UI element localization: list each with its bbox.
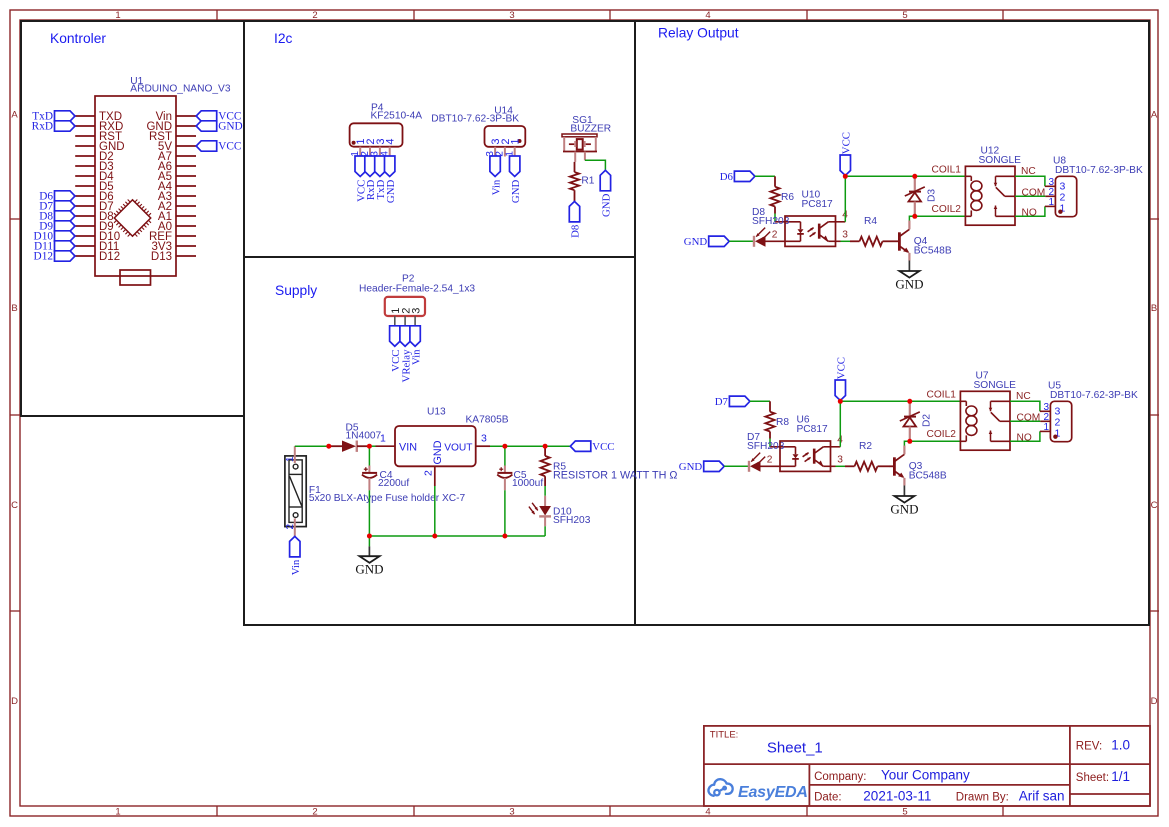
- svg-text:COIL2: COIL2: [932, 204, 962, 215]
- wire R5 to D10: [544, 486, 546, 496]
- U1 left pins: [75, 115, 95, 117]
- U1 right pins: [176, 115, 196, 117]
- connector U5 body: [1050, 401, 1071, 441]
- svg-text:3: 3: [509, 807, 514, 818]
- node VRelay flag under P2: [400, 326, 410, 347]
- node TxD flag: [55, 111, 76, 121]
- svg-text:3: 3: [481, 433, 487, 445]
- node D9 flag: [55, 221, 76, 231]
- svg-text:D8: D8: [570, 225, 582, 238]
- SG1 pin 1: [574, 152, 576, 162]
- svg-text:EasyEDA: EasyEDA: [738, 784, 808, 801]
- svg-text:4: 4: [705, 807, 710, 818]
- frame column ticks: [216, 10, 218, 20]
- wire COIL2: [915, 215, 966, 217]
- node D10 flag: [55, 231, 76, 241]
- node GND flag under U14: [510, 156, 520, 177]
- svg-text:A: A: [1151, 110, 1158, 121]
- svg-text:R6: R6: [781, 192, 794, 203]
- ground symbol GND (relay): [894, 496, 914, 503]
- resistor R4: [841, 240, 851, 242]
- resistor R6: [774, 176, 776, 186]
- svg-text:1: 1: [510, 138, 522, 144]
- node GND flag under P4: [385, 156, 395, 177]
- svg-text:COIL1: COIL1: [932, 164, 962, 175]
- node GND flag (GND pin): [196, 121, 217, 131]
- section box Relay Output: [635, 21, 1149, 625]
- node D6 flag: [55, 191, 76, 201]
- svg-text:D: D: [1151, 696, 1158, 707]
- U8 pin1 marker dot: [1058, 210, 1062, 214]
- svg-text:1000uf: 1000uf: [512, 478, 543, 489]
- wire F1 to D5: [295, 445, 329, 447]
- resistor R8: [769, 401, 771, 411]
- svg-text:C: C: [1151, 500, 1158, 511]
- U13 pin 3 wire: [476, 445, 490, 447]
- svg-text:SFH203: SFH203: [553, 515, 591, 526]
- zener diode D3: [914, 176, 916, 191]
- capacitor C5: [504, 446, 506, 465]
- node TxD flag under P4: [375, 156, 385, 177]
- U1 USB connector rectangle: [120, 270, 151, 285]
- U1 MCU diamond symbol: [114, 200, 150, 236]
- svg-text:1.0: 1.0: [1111, 738, 1130, 753]
- wire R6 to optocoupler pin1: [774, 214, 776, 222]
- svg-text:Sheet:: Sheet:: [1076, 772, 1109, 784]
- node GND flag right of R1: [600, 170, 610, 191]
- wire buzzer pin2 to GND flag: [585, 160, 606, 170]
- wire rail to GND symbol: [368, 536, 370, 546]
- svg-text:2: 2: [423, 470, 435, 476]
- svg-text:GND: GND: [218, 121, 242, 133]
- svg-text:5x20 BLX-Atype Fuse holder XC-: 5x20 BLX-Atype Fuse holder XC-7: [309, 493, 466, 504]
- wire VCC to COIL1: [840, 400, 960, 402]
- svg-text:D3: D3: [927, 189, 938, 202]
- svg-text:3: 3: [837, 455, 843, 466]
- svg-text:D7: D7: [715, 396, 729, 408]
- photodiode D10 SFH203: [544, 496, 546, 506]
- svg-text:D6: D6: [720, 171, 734, 183]
- node D6 flag: [734, 171, 755, 181]
- node VCC flag (relay): [835, 380, 845, 401]
- transistor Q4 BC548B: [894, 240, 899, 242]
- zener diode D2: [909, 401, 911, 416]
- U13 pin 2: [434, 466, 436, 486]
- svg-text:PC817: PC817: [802, 199, 833, 210]
- P4 pin 2: [369, 147, 371, 157]
- svg-text:2: 2: [312, 807, 317, 818]
- photodiode D8 SFH203: [753, 236, 755, 247]
- P2 pin 2: [404, 316, 406, 326]
- node VCC flag (5V pin): [196, 141, 217, 151]
- wire D7 to R8: [750, 400, 770, 402]
- node Vin flag under U14: [490, 156, 500, 177]
- diode D5 1N4007: [329, 445, 342, 447]
- U10 internal phototransistor: [818, 224, 821, 239]
- svg-text:2: 2: [772, 230, 778, 241]
- F1 pin 1: [294, 446, 296, 463]
- relay U12 SONGLE body: [965, 166, 1015, 225]
- SG1 pin 2: [584, 152, 586, 161]
- svg-text:1: 1: [380, 433, 386, 445]
- node Vin flag under P2: [410, 326, 420, 347]
- wire Q4 collector to COIL2: [909, 216, 914, 220]
- buzzer SG1 body: [562, 134, 597, 137]
- optocoupler pin 2 wire: [761, 465, 796, 467]
- svg-text:VOUT: VOUT: [444, 443, 472, 454]
- wire Q3 emitter to ground: [903, 486, 905, 497]
- svg-text:2: 2: [312, 10, 317, 21]
- svg-text:Arif san: Arif san: [1019, 789, 1065, 804]
- U5 pin1 marker dot: [1053, 435, 1057, 439]
- svg-text:D2: D2: [922, 414, 933, 427]
- svg-text:GND: GND: [895, 277, 923, 292]
- P4 pin 1: [359, 147, 361, 157]
- svg-text:Your Company: Your Company: [881, 768, 970, 783]
- node VCC flag (relay): [840, 155, 850, 176]
- svg-text:3: 3: [410, 308, 422, 314]
- connector U14 body: [485, 126, 526, 147]
- svg-text:Company:: Company:: [814, 771, 866, 783]
- wire NO to U8 pin1: [1015, 206, 1045, 216]
- wire NC to U5 pin3: [1010, 401, 1040, 411]
- wire VCC down to optocoupler pin4: [844, 176, 846, 222]
- svg-text:Supply: Supply: [275, 283, 317, 298]
- ground rail wire: [369, 535, 545, 537]
- connector U8 body: [1055, 176, 1076, 216]
- transistor Q3 BC548B: [889, 465, 894, 467]
- svg-text:GND: GND: [684, 236, 708, 248]
- svg-text:D: D: [11, 696, 18, 707]
- U14 pin 2: [504, 147, 506, 157]
- node RxD flag: [55, 121, 76, 131]
- P4 pin1 marker dot: [352, 141, 356, 145]
- photodiode D7 SFH203: [748, 461, 750, 472]
- svg-text:KA7805B: KA7805B: [466, 415, 509, 426]
- P2 pin 3: [414, 316, 416, 326]
- resistor R2: [836, 465, 846, 467]
- D8 light arrows: [756, 228, 765, 237]
- svg-text:A: A: [11, 110, 18, 121]
- node VCC flag right of U13: [570, 441, 591, 451]
- svg-text:Drawn By:: Drawn By:: [956, 792, 1009, 804]
- svg-text:5: 5: [902, 10, 907, 21]
- svg-text:GND: GND: [432, 440, 444, 464]
- svg-text:DBT10-7.62-3P-BK: DBT10-7.62-3P-BK: [1050, 390, 1138, 401]
- svg-text:1: 1: [1048, 197, 1054, 208]
- op-amp U1 body (ARDUINO_NANO_V3 box): [95, 96, 176, 276]
- svg-text:3: 3: [842, 230, 848, 241]
- P4 pin 3: [379, 147, 381, 157]
- wire D10 to ground rail: [544, 526, 546, 536]
- svg-text:NC: NC: [1021, 166, 1036, 177]
- svg-text:DBT10-7.62-3P-BK: DBT10-7.62-3P-BK: [431, 114, 519, 125]
- U12 coil: [965, 175, 971, 177]
- svg-text:Sheet_1: Sheet_1: [767, 739, 823, 756]
- relay U7 SONGLE body: [960, 391, 1010, 450]
- U7 switch: [991, 400, 1011, 402]
- wire GND flag to D8: [729, 240, 753, 242]
- section box I2c: [244, 21, 635, 257]
- EasyEDA logo: [708, 779, 732, 796]
- D10 light arrows: [532, 503, 538, 511]
- U12 switch: [996, 175, 1016, 177]
- svg-text:D12: D12: [34, 251, 54, 263]
- svg-text:DBT10-7.62-3P-BK: DBT10-7.62-3P-BK: [1055, 165, 1143, 176]
- frame row ticks: [10, 218, 20, 220]
- svg-text:1: 1: [1043, 422, 1049, 433]
- capacitor C4: [368, 446, 370, 465]
- svg-text:COIL1: COIL1: [927, 389, 957, 400]
- svg-text:BC548B: BC548B: [914, 245, 952, 256]
- resistor R1: [574, 162, 576, 172]
- svg-text:1: 1: [285, 456, 296, 462]
- node D11 flag: [55, 241, 76, 251]
- wire U13 pin3 to VCC: [490, 445, 570, 447]
- wire COM to U5 pin2: [1010, 420, 1040, 422]
- svg-text:C: C: [11, 500, 18, 511]
- wire VCC to COIL1: [845, 175, 965, 177]
- node VCC flag under P4: [355, 156, 365, 177]
- node D12 flag: [55, 251, 76, 261]
- wire D6 to R6: [755, 175, 775, 177]
- title block border: [704, 726, 1150, 806]
- svg-text:SFH203: SFH203: [747, 441, 785, 452]
- node Vin flag under F1: [290, 536, 300, 557]
- svg-text:4: 4: [705, 10, 710, 21]
- svg-text:TITLE:: TITLE:: [710, 730, 739, 741]
- U14 pin 3: [494, 147, 496, 157]
- svg-text:1: 1: [115, 10, 120, 21]
- wire U13 pin2 to ground rail: [434, 486, 436, 536]
- svg-text:Relay Output: Relay Output: [658, 26, 739, 41]
- wire VCC down to optocoupler pin4: [839, 401, 841, 447]
- node D7 flag: [55, 201, 76, 211]
- svg-text:SONGLE: SONGLE: [974, 380, 1017, 391]
- U14 pin1 marker dot: [518, 139, 522, 143]
- svg-text:GND: GND: [890, 502, 918, 517]
- U13 pin 1 wire: [369, 445, 375, 447]
- connector P2 body: [385, 297, 425, 316]
- wire NC to U8 pin3: [1015, 176, 1045, 186]
- svg-text:BC548B: BC548B: [909, 470, 947, 481]
- svg-text:5: 5: [902, 807, 907, 818]
- wire R8 to optocoupler pin1: [769, 439, 771, 447]
- ground symbol GND (supply): [360, 556, 380, 563]
- U14 pin 1: [514, 147, 516, 157]
- svg-text:2200uf: 2200uf: [378, 478, 409, 489]
- F1 pin 2: [294, 519, 296, 537]
- optocoupler pin 2 wire: [766, 240, 801, 242]
- svg-text:Vin: Vin: [410, 349, 422, 365]
- node D8 flag under R1: [569, 201, 579, 222]
- junction dots overlay: [326, 444, 331, 449]
- U10 internal light arrows: [808, 228, 814, 232]
- U6 internal light arrows: [803, 453, 809, 457]
- svg-text:RxD: RxD: [32, 121, 53, 133]
- svg-text:PC817: PC817: [797, 424, 828, 435]
- svg-text:GND: GND: [510, 180, 522, 204]
- wire GND flag to D7: [724, 465, 748, 467]
- optocoupler pin 1 wire: [775, 221, 801, 223]
- node RxD flag under P4: [365, 156, 375, 177]
- node VCC flag (Vin pin): [196, 111, 217, 121]
- wire COIL2: [910, 440, 961, 442]
- D7 light arrows: [751, 453, 760, 462]
- svg-text:R8: R8: [776, 417, 789, 428]
- svg-text:GND: GND: [385, 180, 397, 204]
- svg-text:VCC: VCC: [218, 141, 241, 153]
- svg-text:4: 4: [385, 138, 397, 144]
- svg-text:R4: R4: [864, 216, 877, 227]
- section box Kontroler: [21, 21, 244, 416]
- svg-text:D13: D13: [151, 251, 172, 263]
- svg-text:2: 2: [767, 455, 773, 466]
- wire NO to U5 pin1: [1010, 431, 1040, 441]
- svg-text:REV:: REV:: [1076, 741, 1102, 753]
- P2 pin 1: [394, 316, 396, 326]
- node GND flag at D7: [704, 461, 725, 471]
- svg-text:R1: R1: [581, 176, 594, 187]
- wire Q4 emitter to ground: [908, 261, 910, 272]
- node GND flag at D8: [709, 236, 730, 246]
- node D8 flag: [55, 211, 76, 221]
- svg-text:I2c: I2c: [274, 31, 293, 46]
- resistor R5: [544, 446, 546, 456]
- ground symbol GND (relay): [899, 271, 919, 278]
- svg-text:Header-Female-2.54_1x3: Header-Female-2.54_1x3: [359, 284, 475, 295]
- svg-text:ARDUINO_NANO_V3: ARDUINO_NANO_V3: [130, 84, 231, 95]
- connector P4 body: [350, 123, 403, 146]
- optocoupler U6 body: [780, 441, 831, 471]
- svg-text:COIL2: COIL2: [927, 429, 957, 440]
- svg-text:KF2510-4A: KF2510-4A: [371, 111, 423, 122]
- svg-text:2021-03-11: 2021-03-11: [863, 789, 931, 804]
- U7 coil: [960, 400, 966, 402]
- svg-text:U13: U13: [427, 407, 446, 418]
- svg-text:R2: R2: [859, 441, 872, 452]
- optocoupler U10 body: [785, 216, 836, 246]
- svg-text:VCC: VCC: [836, 357, 848, 379]
- svg-text:2: 2: [285, 524, 296, 530]
- svg-text:SFH203: SFH203: [752, 216, 790, 227]
- svg-text:3: 3: [509, 10, 514, 21]
- svg-text:RESISTOR 1 WATT TH Ω: RESISTOR 1 WATT TH Ω: [553, 470, 677, 482]
- svg-text:BUZZER: BUZZER: [570, 123, 611, 134]
- svg-text:VIN: VIN: [399, 441, 417, 453]
- svg-text:B: B: [11, 303, 17, 314]
- wire COM to U8 pin2: [1015, 195, 1045, 197]
- svg-text:Kontroler: Kontroler: [50, 31, 106, 46]
- svg-text:Date:: Date:: [814, 792, 842, 804]
- svg-text:GND: GND: [355, 562, 383, 577]
- U6 internal LED: [795, 447, 797, 454]
- svg-text:VCC: VCC: [592, 441, 614, 453]
- fuse F1 body: [285, 456, 306, 527]
- node VCC flag under P2: [390, 326, 400, 347]
- optocoupler pin 1 wire: [770, 446, 796, 448]
- svg-text:SONGLE: SONGLE: [979, 155, 1022, 166]
- U10 internal LED: [800, 222, 802, 229]
- U6 internal phototransistor: [813, 449, 816, 464]
- svg-text:NC: NC: [1016, 391, 1031, 402]
- svg-text:B: B: [1151, 303, 1157, 314]
- svg-text:Vin: Vin: [290, 559, 302, 575]
- svg-text:1: 1: [115, 807, 120, 818]
- regulator U13 body: [395, 426, 476, 466]
- svg-text:D12: D12: [99, 251, 120, 263]
- section box Supply: [244, 257, 635, 625]
- wire Q3 collector to COIL2: [904, 441, 909, 445]
- P4 pin 4: [389, 147, 391, 157]
- svg-text:1N4007: 1N4007: [346, 431, 382, 442]
- svg-text:GND: GND: [679, 461, 703, 473]
- svg-text:Vin: Vin: [490, 179, 502, 195]
- node D7 flag: [729, 396, 750, 406]
- svg-text:1/1: 1/1: [1111, 769, 1130, 784]
- svg-text:GND: GND: [601, 193, 613, 217]
- svg-text:VCC: VCC: [841, 132, 853, 154]
